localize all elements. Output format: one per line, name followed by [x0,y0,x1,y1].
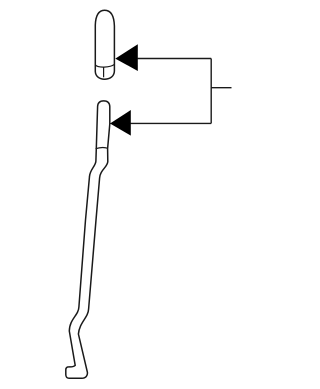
rod tick line [95,148,108,149]
bracket vertical line [210,59,212,124]
knob collar seam (vertical) [103,67,105,77]
knob (shift knob capsule) [95,10,114,79]
knob collar line [95,64,114,67]
arrow 1 (to knob) [115,44,138,71]
leader line 1 [138,58,212,60]
callout stub line [211,87,231,89]
arrow 2 (to lever) [110,110,131,136]
leader line 2 [131,122,212,124]
lever rod (shift lever) [66,101,110,378]
